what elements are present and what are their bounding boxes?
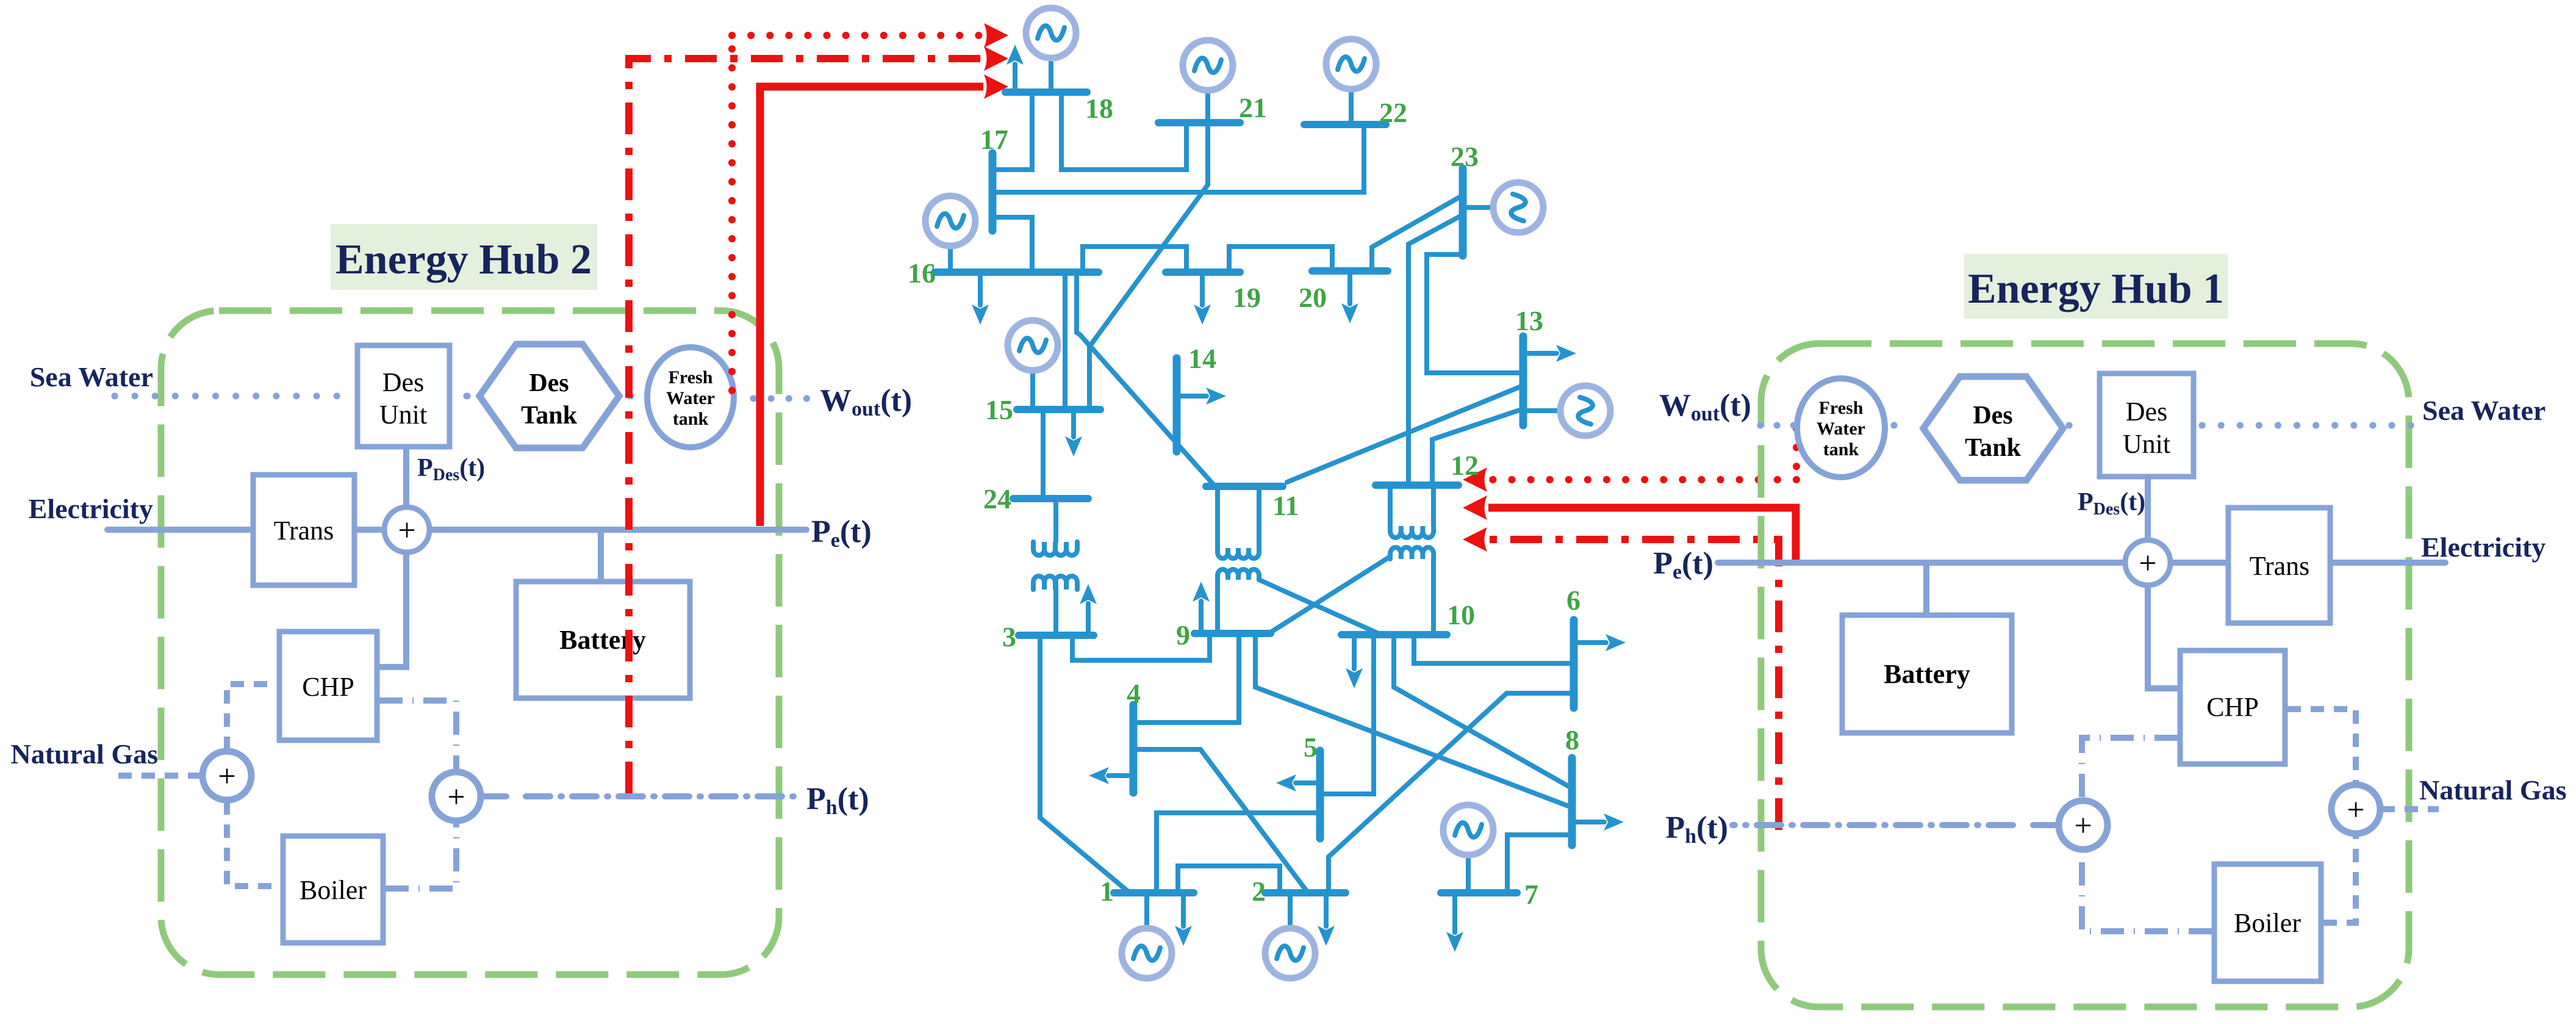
wire line 13-12 [1432, 409, 1521, 485]
red power link hub2 to bus18 solid [760, 87, 983, 526]
wire line 3-1 [1040, 635, 1130, 893]
generator G7 [1443, 805, 1493, 893]
bus 9 [1194, 630, 1271, 637]
svg-text:Sea Water: Sea Water [30, 361, 153, 392]
wire line 9-4 [1133, 633, 1239, 723]
red power link arrowhead bus18 [984, 74, 1008, 99]
svg-text:+: + [218, 759, 235, 794]
wire CHP to heat plus dashdot [379, 701, 456, 770]
svg-text:5: 5 [1304, 732, 1318, 763]
svg-text:Water: Water [666, 388, 715, 408]
red power link arrowhead bus12 [1463, 496, 1487, 520]
Fresh Water tank circle hub1 [1797, 378, 1885, 477]
transformer T11-9 [1218, 486, 1381, 635]
load arrow bus15 down [1065, 409, 1082, 456]
load arrow bus1 down [1175, 893, 1192, 946]
wire Boiler to heat plus dashdot hub1 [2082, 850, 2212, 931]
wire line 10-5 [1320, 635, 1374, 794]
plus adder heat hub2 [432, 772, 481, 821]
svg-text:Wout(t): Wout(t) [1659, 388, 1751, 425]
Des Tank hexagon hub2 [479, 344, 619, 448]
load arrow bus20 down [1341, 271, 1358, 323]
svg-text:Trans: Trans [274, 516, 334, 546]
svg-text:tank: tank [1823, 439, 1859, 460]
load arrow bus6 right [1574, 634, 1626, 651]
svg-text:19: 19 [1233, 282, 1261, 313]
CHP box hub1 [2180, 651, 2285, 764]
Trans box hub2 [253, 475, 354, 585]
wire line 23-13 [1427, 254, 1523, 373]
wire line 16-15 [1063, 272, 1067, 409]
load arrow bus19 down [1194, 272, 1211, 325]
svg-text:18: 18 [1085, 93, 1113, 124]
plus adder gas hub1 [2331, 785, 2380, 834]
svg-text:Water: Water [1817, 419, 1865, 439]
wire W_out dotted hub1 [1760, 422, 1794, 429]
wire line 23-20 [1372, 195, 1463, 271]
svg-text:11: 11 [1272, 490, 1299, 521]
load arrow bus13 right [1523, 345, 1576, 362]
bus 18 [1005, 88, 1087, 96]
wire line 18-17 [994, 92, 1032, 170]
wire electricity line hub1 [1718, 560, 2445, 566]
bus 19 [1166, 269, 1240, 276]
/SEC:REDLINKS [908, 8, 1626, 978]
plus adder gas hub2 [203, 751, 251, 800]
wire line 8-7 [1507, 835, 1572, 893]
svg-text:Fresh: Fresh [669, 367, 713, 388]
bus 20 [1312, 267, 1388, 275]
wire line 10-6 [1414, 635, 1574, 663]
generator G18 [1026, 8, 1076, 92]
svg-text:3: 3 [1002, 621, 1016, 652]
generator G2 [1265, 893, 1315, 978]
svg-text:8: 8 [1565, 724, 1579, 755]
generator G16 [925, 196, 975, 272]
wire DesUnit to plus [403, 447, 409, 507]
svg-text:+: + [398, 513, 415, 548]
Trans box hub1 [2228, 508, 2330, 623]
svg-text:14: 14 [1188, 343, 1216, 374]
wire electricity line hub2 [107, 527, 806, 533]
svg-text:Natural Gas: Natural Gas [11, 738, 159, 770]
bus 7 [1441, 889, 1517, 896]
svg-text:4: 4 [1127, 678, 1141, 709]
wire CHP to gas plus dashed hub1 [2287, 709, 2356, 784]
bus 1 [1114, 889, 1194, 896]
hub2 title Energy Hub 2 [331, 224, 597, 290]
Boiler box hub1 [2214, 864, 2321, 981]
bus 16 [935, 269, 1099, 276]
load arrow bus4 left [1089, 767, 1133, 784]
generator G22 [1326, 39, 1376, 124]
wire line 1-2 [1178, 866, 1280, 893]
wire Boiler to gas plus dashed hub1 [2323, 834, 2356, 923]
wire sea water dots hex-unit hub1 [2069, 422, 2086, 429]
hub1 border [1761, 344, 2409, 1007]
wire line 16-19 [1083, 247, 1186, 272]
svg-text:Natural Gas: Natural Gas [2419, 774, 2567, 806]
load arrow bus2 down [1318, 893, 1335, 946]
bus 8 [1568, 758, 1576, 845]
bus 6 [1570, 620, 1578, 708]
svg-text:Des: Des [529, 369, 569, 397]
wire W_out dotted hub2 [753, 395, 808, 402]
wire Ph out dashdot hub2 [482, 793, 800, 799]
wire line 4-2 [1133, 749, 1307, 891]
svg-text:21: 21 [1239, 92, 1267, 123]
load arrow bus3 up [1080, 584, 1097, 635]
svg-text:Sea Water: Sea Water [2422, 395, 2546, 426]
svg-text:6: 6 [1566, 585, 1580, 616]
wire Ph dashdot hub1 [1732, 822, 2058, 828]
wire line 17-16 [994, 217, 1032, 272]
load arrow bus14 right [1177, 388, 1226, 405]
svg-text:Tank: Tank [1965, 434, 2022, 462]
svg-text:10: 10 [1447, 599, 1475, 630]
svg-text:Battery: Battery [1884, 659, 1970, 689]
svg-text:Pe(t): Pe(t) [1653, 546, 1713, 583]
wire dot DesTank-tank [630, 393, 631, 400]
svg-text:Des: Des [2126, 397, 2167, 427]
transformer T24-3 [1033, 499, 1077, 635]
Boiler box hub2 [283, 836, 383, 943]
wire line 23-12 [1408, 215, 1463, 485]
wire CHP to heat plus dashdot hub1 [2082, 738, 2178, 800]
wire line 13-11 [1287, 386, 1521, 482]
red power link hub1 to bus12 solid [1488, 508, 1796, 561]
svg-text:Ph(t): Ph(t) [806, 782, 869, 819]
wire line 1-5 [1157, 813, 1320, 893]
bus 4 [1130, 705, 1138, 793]
bus 17 [989, 153, 997, 231]
load arrow bus5 left [1276, 774, 1320, 791]
svg-text:Electricity: Electricity [2421, 532, 2546, 563]
bus 13 [1519, 336, 1527, 425]
svg-text:17: 17 [980, 124, 1008, 155]
svg-text:Unit: Unit [2123, 429, 2170, 459]
svg-text:+: + [2347, 793, 2364, 827]
svg-text:PDes(t): PDes(t) [2078, 488, 2145, 519]
wire plus to CHP hub1 [2148, 585, 2180, 688]
generator G13 [1526, 386, 1610, 436]
generator G21 [1183, 40, 1233, 123]
load arrow bus16 down [972, 272, 989, 325]
wire battery tap hub2 [598, 530, 604, 582]
/SEC:NETWORK [1653, 254, 2566, 1007]
svg-text:16: 16 [908, 258, 936, 289]
bus 2 [1265, 889, 1346, 896]
wire dot DesUnit-DesTank [467, 393, 467, 400]
svg-text:15: 15 [985, 394, 1013, 425]
CHP box hub2 [279, 632, 377, 740]
generator G15 [1008, 320, 1058, 409]
red water link arrowhead bus18 [984, 23, 1008, 48]
wire line 19-20 [1229, 247, 1332, 272]
/SEC:HUB2 [629, 23, 1796, 830]
hub1 title Energy Hub 1 [1964, 254, 2228, 319]
wire gas plus to CHP dashed [227, 684, 277, 750]
wire sea water dots tank-hex hub1 [1894, 422, 1908, 429]
wire gas plus to Boiler dashed [227, 801, 281, 886]
wire line 21-15 [1089, 123, 1208, 409]
svg-text:Energy Hub 1: Energy Hub 1 [1968, 265, 2224, 312]
svg-text:23: 23 [1451, 141, 1479, 172]
svg-text:Tank: Tank [521, 402, 578, 430]
wire line 9-3 [1072, 633, 1210, 660]
generator G23 [1465, 182, 1543, 233]
svg-text:Energy Hub 2: Energy Hub 2 [335, 236, 592, 283]
plus adder electricity hub2 [384, 507, 429, 552]
Des Unit box hub1 [2100, 373, 2194, 477]
svg-text:tank: tank [673, 409, 709, 429]
wire DesUnit to plus hub1 [2145, 477, 2151, 540]
svg-text:+: + [2074, 809, 2092, 843]
svg-text:Ph(t): Ph(t) [1665, 810, 1728, 848]
svg-text:13: 13 [1515, 305, 1543, 336]
svg-text:Trans: Trans [2250, 551, 2310, 581]
svg-text:24: 24 [983, 483, 1011, 514]
generator G1 [1122, 893, 1172, 978]
red heat link arrowhead bus18 [984, 46, 1008, 71]
svg-text:Battery: Battery [559, 625, 646, 655]
svg-text:2: 2 [1252, 876, 1266, 907]
svg-text:Boiler: Boiler [2234, 908, 2301, 938]
svg-text:Unit: Unit [379, 400, 427, 430]
Battery box hub2 [516, 582, 690, 698]
svg-text:Des: Des [1973, 402, 2012, 430]
bus 22 [1304, 121, 1386, 128]
svg-text:Electricity: Electricity [29, 493, 153, 524]
svg-text:CHP: CHP [2206, 692, 2259, 722]
Des Unit box hub2 [357, 345, 450, 447]
svg-text:Boiler: Boiler [300, 875, 367, 905]
load arrow bus10 down [1346, 635, 1363, 688]
load arrow bus8 right [1572, 813, 1624, 831]
plus adder heat hub1 [2059, 801, 2108, 849]
red heat link hub1 to bus12 dashdot [1488, 539, 1779, 830]
wire line 15-24 [1041, 409, 1046, 499]
svg-text:12: 12 [1451, 450, 1479, 481]
Battery box hub1 [1842, 615, 2012, 733]
svg-text:1: 1 [1100, 876, 1114, 907]
svg-text:7: 7 [1524, 879, 1538, 910]
svg-text:+: + [447, 780, 465, 815]
wire line 16-14 [1077, 272, 1080, 334]
load arrow bus18 up [1006, 45, 1024, 92]
wire line 10-8 [1394, 635, 1570, 787]
wire line 18-21 [1061, 92, 1186, 170]
wire battery tap hub1 [1923, 563, 1929, 615]
red water link arrowhead bus12 [1463, 467, 1487, 492]
svg-text:Fresh: Fresh [1819, 398, 1864, 418]
Des Tank hexagon hub1 [1923, 377, 2063, 480]
wire sea water dotted hub2 [115, 393, 351, 400]
bus 24 [1013, 495, 1088, 502]
transformer T12-10 [1269, 485, 1433, 635]
bus 11 [1206, 483, 1283, 490]
wire plus to CHP hub2 [377, 552, 406, 667]
wire line 6-2 [1329, 693, 1574, 893]
bus 23 [1459, 168, 1467, 256]
wire natural gas dashed hub1 [2381, 806, 2439, 812]
bus 21 [1158, 119, 1240, 126]
svg-text:Wout(t): Wout(t) [820, 383, 912, 420]
svg-text:CHP: CHP [302, 672, 354, 702]
red heat link hub2 to bus18 dashdot [629, 59, 982, 793]
wire line 17-22 [994, 124, 1364, 192]
red heat link arrowhead bus12 [1463, 527, 1487, 552]
wire Boiler to heat plus dashdot [386, 823, 456, 889]
wire natural gas dashed in hub2 [118, 773, 203, 779]
svg-text:Pe(t): Pe(t) [811, 514, 872, 552]
wire line 14-11 [1080, 334, 1215, 486]
svg-text:+: + [2139, 546, 2156, 581]
Fresh Water tank circle hub2 [647, 347, 734, 447]
load arrow bus7 down [1446, 893, 1463, 952]
svg-text:9: 9 [1176, 619, 1190, 651]
bus 10 [1341, 631, 1447, 638]
bus 14 [1173, 358, 1181, 452]
svg-text:Des: Des [382, 367, 424, 397]
bus 5 [1316, 751, 1324, 838]
svg-text:20: 20 [1299, 282, 1327, 313]
hub2 border [161, 311, 779, 975]
bus 15 [1017, 406, 1100, 413]
bus 3 [1019, 632, 1094, 639]
wire sea water dotted right hub1 [2202, 422, 2413, 429]
red water link hub2 to bus18 dotted [732, 35, 983, 391]
load arrow bus9 up [1193, 582, 1210, 633]
red water link hub1 to bus12 dotted [1488, 428, 1796, 480]
svg-text:22: 22 [1379, 97, 1407, 128]
bus 12 [1376, 481, 1458, 489]
wire line 9-8 [1255, 633, 1570, 807]
plus adder electricity hub1 [2125, 540, 2170, 585]
svg-text:PDes(t): PDes(t) [417, 454, 485, 485]
